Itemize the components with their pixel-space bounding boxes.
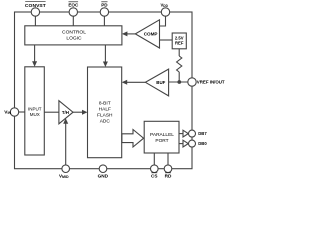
arrowhead to DB0 xyxy=(183,140,188,147)
wire input mux to T/H xyxy=(44,111,59,113)
pin EOC xyxy=(69,8,77,16)
svg-text:LOGIC: LOGIC xyxy=(66,35,82,41)
bus block arrow ADC to parallel port xyxy=(122,130,144,148)
8-bit half flash ADC box U3 xyxy=(88,67,122,158)
svg-text:CONVST: CONVST xyxy=(25,3,46,9)
svg-text:CS: CS xyxy=(151,174,158,179)
buffer BUF xyxy=(145,69,168,96)
wire BUF input / VREF node to terminal xyxy=(169,81,188,83)
svg-text:FLASH: FLASH xyxy=(97,112,113,118)
svg-text:ADC: ADC xyxy=(100,118,111,124)
svg-text:COMP: COMP xyxy=(144,31,158,36)
arrowhead COMP to control logic xyxy=(122,31,128,36)
wire RD stub xyxy=(167,153,169,165)
arrowhead to DB7 xyxy=(183,130,188,137)
svg-text:EOC: EOC xyxy=(68,3,79,8)
svg-text:8-BIT: 8-BIT xyxy=(99,100,111,106)
svg-text:PORT: PORT xyxy=(155,138,168,144)
svg-text:BUF: BUF xyxy=(156,80,165,85)
wire COMP output to control logic xyxy=(127,33,136,35)
arrowhead VMID to T/H xyxy=(63,118,68,124)
svg-text:MUX: MUX xyxy=(30,112,40,117)
pin VMID xyxy=(62,165,70,173)
arrowhead control logic to input mux xyxy=(32,61,37,67)
wire CS stub xyxy=(153,153,155,165)
node VREF junction xyxy=(177,80,181,84)
pin CS xyxy=(151,165,159,173)
pin GND xyxy=(99,165,107,173)
wire 2.5V REF to COMP input xyxy=(160,39,173,41)
control logic box U1 xyxy=(25,26,122,45)
pin RD xyxy=(164,165,172,173)
svg-text:VDD: VDD xyxy=(160,2,168,8)
svg-text:INPUT: INPUT xyxy=(28,107,42,112)
wire VMID to T/H xyxy=(65,124,67,165)
parallel port box U4 xyxy=(144,121,179,153)
svg-text:VREF IN/OUT: VREF IN/OUT xyxy=(197,80,225,85)
svg-text:PARALLEL: PARALLEL xyxy=(150,132,174,138)
pin VREF IN/OUT xyxy=(188,78,196,86)
svg-text:VMID: VMID xyxy=(59,173,69,179)
svg-text:DB0: DB0 xyxy=(198,141,207,146)
wire resistor to VREF node xyxy=(178,72,180,82)
overline RD xyxy=(165,172,171,174)
pin DB0 xyxy=(189,140,196,147)
comparator COMP xyxy=(135,20,159,48)
wire T/H output to ADC xyxy=(73,111,84,113)
resistor R1 xyxy=(177,56,182,72)
svg-text:HALF: HALF xyxy=(99,106,111,112)
arrowhead control logic to ADC xyxy=(103,62,108,68)
track/hold T/H xyxy=(59,101,73,124)
arrowhead T/H to ADC xyxy=(82,110,88,115)
wire parallel port to DB0 xyxy=(179,143,183,145)
svg-text:CONTROL: CONTROL xyxy=(62,30,86,36)
svg-text:T/H: T/H xyxy=(62,110,69,115)
pin CONVST xyxy=(31,8,39,16)
pin PD xyxy=(100,8,108,16)
arrowhead BUF to ADC xyxy=(122,80,128,85)
chip outline xyxy=(15,12,193,169)
svg-text:DB7: DB7 xyxy=(198,131,207,136)
pin VDD xyxy=(161,8,169,16)
wire control logic to ADC xyxy=(104,45,106,62)
wire PD stub xyxy=(103,16,105,26)
wire parallel port to DB7 xyxy=(179,133,183,135)
wire control logic to input mux xyxy=(34,45,36,62)
input mux box U2 xyxy=(25,67,45,155)
wire BUF output to ADC xyxy=(127,81,146,83)
wire REF box to resistor xyxy=(178,49,180,56)
wire VIN to input mux xyxy=(19,111,25,113)
pin DB7 xyxy=(189,130,196,137)
svg-text:VIN: VIN xyxy=(4,109,11,115)
overline CONVST xyxy=(25,0,45,2)
pin VIN xyxy=(10,108,18,116)
2.5V REF box U5 xyxy=(172,33,186,49)
overline CS xyxy=(151,172,157,174)
svg-text:REF: REF xyxy=(175,41,184,46)
wire EOC stub xyxy=(72,16,74,26)
svg-text:PD: PD xyxy=(101,3,108,8)
overline PD xyxy=(101,1,107,3)
wire CONVST stub xyxy=(34,16,36,26)
wire VDD to COMP xyxy=(160,16,166,26)
svg-text:GND: GND xyxy=(98,174,109,179)
svg-text:RD: RD xyxy=(165,174,172,179)
overline EOC xyxy=(69,1,79,3)
